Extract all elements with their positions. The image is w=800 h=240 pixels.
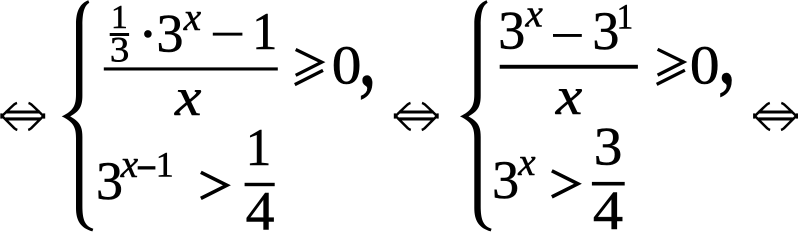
svg-text:1: 1	[156, 145, 174, 185]
svg-text:1: 1	[246, 118, 272, 177]
svg-text:x: x	[525, 0, 544, 35]
svg-text:4: 4	[593, 180, 623, 232]
svg-text:x: x	[183, 0, 202, 39]
svg-text:3: 3	[110, 31, 129, 70]
svg-text:3: 3	[96, 151, 123, 211]
svg-text:x: x	[174, 67, 201, 127]
svg-text:,: ,	[358, 3, 377, 106]
svg-text:3: 3	[592, 1, 619, 61]
svg-text:1: 1	[617, 0, 634, 37]
svg-text:x: x	[120, 143, 139, 186]
svg-text:3: 3	[498, 0, 525, 60]
svg-text:,: ,	[718, 1, 737, 104]
svg-text:0: 0	[332, 35, 362, 96]
svg-text:4: 4	[246, 182, 275, 232]
svg-text:3: 3	[594, 117, 623, 177]
svg-text:3: 3	[157, 3, 184, 63]
svg-text:1: 1	[252, 3, 277, 61]
svg-text:x: x	[517, 141, 536, 184]
svg-text:3: 3	[492, 150, 519, 210]
svg-text:x: x	[555, 66, 582, 126]
svg-text:0: 0	[690, 35, 720, 96]
